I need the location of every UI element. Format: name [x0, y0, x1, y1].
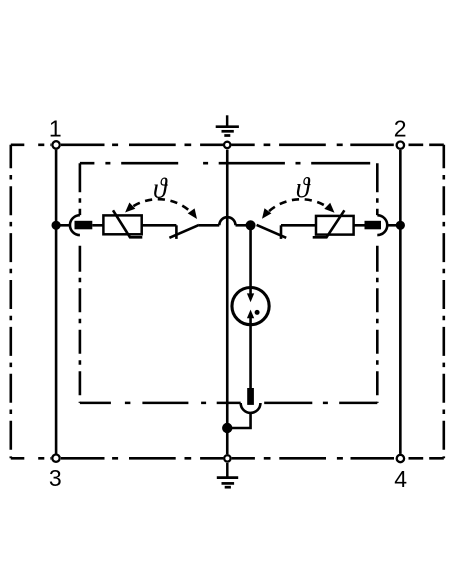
- varistor RV2 body: [316, 216, 354, 235]
- wire spark gap down to pin: [249, 318, 252, 390]
- protection module boundary bottom edge left part (dash-dot): [80, 402, 241, 405]
- enclosure border right edge (dash-dot): [442, 145, 445, 459]
- thermal action arrowhead right (at disconnector): [188, 208, 197, 219]
- wire center node down to spark gap: [249, 225, 252, 293]
- node junction dot PE bottom: [222, 423, 232, 433]
- terminal 3: [52, 455, 59, 462]
- enclosure border top edge (dash-dot): [11, 144, 444, 147]
- terminal 1: [52, 141, 59, 148]
- spark gap trigger dot: [255, 310, 260, 315]
- PE top terminal circle: [224, 142, 230, 148]
- enclosure border left edge (dash-dot): [10, 145, 13, 459]
- svg-text:ϑ: ϑ: [296, 173, 311, 204]
- wire hump to center node: [236, 224, 251, 227]
- earth symbol top: [216, 115, 239, 135]
- plug-in contact socket left (arc): [70, 215, 80, 235]
- wire socket to right conductor: [387, 224, 400, 227]
- thermal action arrowhead left (at varistor): [125, 203, 135, 213]
- PE bottom terminal circle: [224, 455, 230, 461]
- wire blade to crossover: [199, 224, 219, 227]
- thermal disconnector left fixed contact: [175, 225, 178, 239]
- protection module boundary left edge lower part (dash-dot): [79, 235, 82, 403]
- spark gap F1 circle: [232, 288, 269, 325]
- thermal action arrowhead right-left (at center node): [262, 208, 271, 219]
- enclosure border bottom edge (dash-dot): [11, 457, 444, 460]
- spark gap top arrowhead: [247, 293, 254, 302]
- wire PE center vertical: [226, 150, 229, 455]
- protection module boundary right edge lower part (dash-dot): [376, 235, 379, 403]
- wire varistor to disconnector left: [142, 224, 177, 227]
- node junction dot right conductor: [396, 221, 405, 230]
- plug-in contact pin bottom (electrode): [247, 388, 254, 405]
- plug-in contact pin right (electrode): [365, 221, 382, 230]
- thermal disconnector right fixed contact: [280, 225, 283, 239]
- varistor RV1 diagonal stroke: [113, 210, 142, 237]
- terminal 4: [397, 455, 404, 462]
- varistor RV1 body: [103, 215, 141, 234]
- varistor RV2 diagonal stroke: [313, 210, 345, 237]
- wire left branch to socket: [56, 224, 70, 227]
- svg-text:3: 3: [49, 465, 62, 491]
- plug-in contact pin left (electrode): [75, 221, 93, 230]
- svg-text:2: 2: [394, 115, 407, 141]
- protection module boundary left edge upper part (dash-dot): [79, 163, 82, 215]
- wire conductor 1-3 left vertical: [55, 150, 58, 454]
- earth symbol bottom: [217, 463, 238, 487]
- svg-text:ϑ: ϑ: [153, 174, 168, 205]
- plug-in contact socket right (arc): [377, 215, 387, 235]
- svg-text:4: 4: [394, 466, 407, 492]
- thermal action dashed arc right: [269, 199, 326, 211]
- thermal disconnector left blade: [169, 225, 199, 238]
- wire disconnector to varistor right: [281, 224, 316, 227]
- wire varistor to pin right: [354, 224, 365, 227]
- protection module boundary right edge upper part (dash-dot): [376, 163, 379, 215]
- node junction dot center branch: [246, 220, 256, 230]
- protection module boundary top edge (dash-dot): [80, 162, 377, 165]
- thermal action dashed arc left: [133, 199, 190, 211]
- wire crossover hump over PE: [219, 217, 235, 225]
- wire socket bottom to PE junction: [227, 413, 250, 428]
- wire conductor 2-4 right vertical: [399, 150, 402, 454]
- thermal disconnector right blade: [257, 225, 287, 238]
- protection module boundary bottom edge right part (dash-dot): [261, 402, 378, 405]
- thermal action arrowhead right-right (at varistor RV2): [324, 203, 334, 213]
- terminal 2: [397, 142, 404, 149]
- spark gap bottom arrowhead: [247, 310, 254, 319]
- plug-in contact socket bottom (arc): [241, 403, 261, 413]
- node junction dot left conductor: [52, 221, 61, 230]
- wire pin to varistor left: [92, 224, 103, 227]
- svg-text:1: 1: [49, 116, 62, 142]
